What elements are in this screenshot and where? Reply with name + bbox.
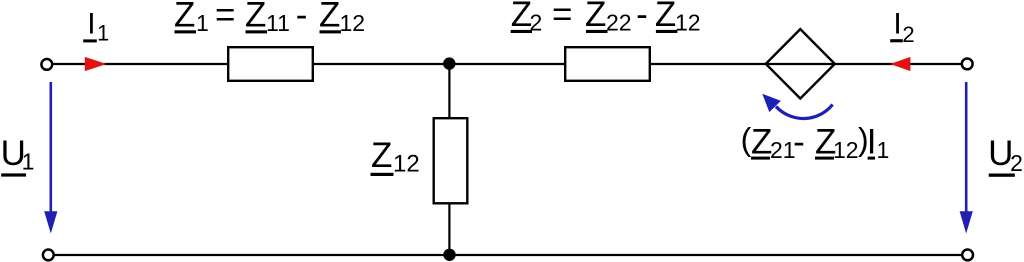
svg-text:11: 11 (266, 10, 290, 36)
terminal port 2 top (962, 59, 973, 70)
svg-text:1: 1 (22, 149, 35, 175)
label Z1 = Z11 - Z12 (174, 0, 365, 36)
svg-text:2: 2 (1010, 150, 1023, 176)
svg-text:12: 12 (340, 10, 366, 36)
current arrow I2 (890, 57, 910, 71)
svg-text:Z: Z (585, 0, 606, 34)
terminal port 1 top (41, 59, 52, 70)
label (Z21 - Z12)I1 (741, 122, 890, 164)
controlled source reference arrow (762, 94, 832, 119)
svg-text:2: 2 (902, 22, 914, 47)
terminal port 1 bottom (43, 250, 54, 261)
voltage arrow U2 (960, 82, 973, 234)
svg-text:-: - (636, 0, 648, 34)
label U2 (988, 134, 1023, 177)
resistor Z1 body (228, 47, 313, 81)
svg-text:1: 1 (97, 21, 109, 46)
svg-text:Z: Z (245, 0, 266, 35)
svg-text:21: 21 (770, 137, 796, 163)
svg-text:I: I (893, 8, 901, 41)
voltage arrow U1 (44, 82, 57, 234)
wire bottom rail (55, 254, 962, 256)
current arrow I1 (85, 57, 107, 71)
node junction bottom (443, 249, 455, 261)
svg-text:Z: Z (174, 0, 195, 35)
svg-text:=: = (215, 0, 235, 35)
terminal port 2 bottom (962, 250, 973, 261)
wire top rail (53, 63, 961, 65)
svg-text:I: I (87, 7, 95, 40)
svg-text:1: 1 (877, 137, 890, 163)
svg-text:I: I (867, 123, 877, 162)
label Z2 = Z22 - Z12 (511, 0, 701, 36)
svg-text:12: 12 (675, 10, 701, 36)
resistor Z2 body (565, 47, 650, 81)
svg-text:-: - (296, 0, 308, 35)
svg-text:(: ( (741, 122, 752, 158)
svg-text:Z: Z (319, 0, 340, 35)
svg-text:Z: Z (371, 136, 392, 175)
wire middle branch (448, 64, 450, 255)
svg-text:12: 12 (393, 151, 420, 178)
label I2 (890, 8, 914, 48)
svg-text:12: 12 (833, 137, 859, 163)
svg-text:22: 22 (606, 10, 632, 36)
label U1 (1, 134, 35, 177)
resistor Z12 body (434, 118, 468, 203)
label I1 (83, 7, 109, 45)
node junction top (443, 57, 455, 69)
svg-text:1: 1 (196, 10, 209, 36)
controlled source diamond (766, 29, 835, 98)
svg-text:=: = (552, 0, 572, 34)
svg-text:Z: Z (655, 0, 676, 34)
label Z12 shunt (371, 136, 420, 178)
svg-text:-: - (793, 123, 805, 162)
